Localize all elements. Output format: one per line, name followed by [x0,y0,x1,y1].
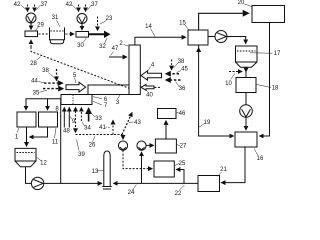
leader 21 [218,172,222,177]
drop wire to box 11 [47,99,49,110]
manifold up-arrow b line 9 [68,108,70,128]
dashed wire vessel31 to bed30 [66,33,75,35]
dashed wire bed29 to vessel31 [39,33,49,35]
manifold box 6/7 [61,95,92,105]
svg-text:37: 37 [91,2,98,8]
bottom wire 22 into column [114,182,199,184]
leader 30 [83,38,87,43]
svg-text:20: 20 [238,0,245,6]
dashed feed 10 [229,71,242,73]
tank 17 [236,46,258,67]
thick outlet arrow 32 [104,31,111,38]
dashed feed 35 [43,88,63,90]
svg-text:38: 38 [178,59,185,65]
svg-text:33: 33 [95,116,102,122]
leader 24 [133,185,137,191]
leader 11 [55,128,57,138]
long vertical wire from manifold [60,99,62,184]
svg-text:27: 27 [180,144,187,150]
wire 19 from box15 down to box16 [199,45,234,136]
leader 43 [129,121,134,123]
svg-text:2: 2 [119,41,123,47]
svg-text:23: 23 [106,16,113,22]
feed arrow 37 into mixer 29 [34,5,36,12]
pump circle B [137,141,146,150]
wire mixer to bed 29 [30,23,32,30]
vessel 31 [50,27,65,43]
tower box 2 [129,45,140,95]
wire mixer to bed 30 [81,24,83,31]
mixer circle 30 [77,14,87,24]
leader 3 [118,95,121,99]
arrow box27 to box46 [165,121,167,139]
dashed line 28 diagonal [31,47,129,88]
hopper outlet wire [26,167,32,184]
leader 34 [82,122,85,127]
svg-text:37: 37 [41,2,48,8]
leader 36 [176,82,180,87]
feed arrow 42 into mixer 30 [78,5,80,12]
pump P3 [31,177,43,189]
leader 7 [93,101,102,105]
wire box15 top to box 20 [199,13,249,30]
feed arrow 37 into mixer 30 [85,5,87,12]
leader 14 [151,29,156,37]
leader 31 [57,20,60,27]
leader 23 [100,21,107,25]
pump P1 [215,31,227,43]
svg-text:32: 32 [99,44,106,50]
dashed branch 41 [112,120,114,134]
svg-text:26: 26 [89,143,96,149]
svg-text:11: 11 [52,140,59,146]
svg-text:24: 24 [128,190,135,196]
column 13 [102,151,111,189]
overhead line 14 to box 15 [135,37,186,45]
svg-text:1: 1 [15,135,19,141]
dashed feed 36 [166,79,181,81]
duct box 3 [88,85,129,95]
svg-text:7: 7 [104,103,108,109]
svg-text:43: 43 [134,120,141,126]
box 25 [154,161,174,177]
leader 5 [75,78,77,84]
leader 29 [36,27,39,31]
dashed feed 44 [44,82,63,84]
mixer circle 29 [26,13,36,23]
svg-text:30: 30 [77,43,84,49]
feed arrow 42 into mixer 29 [27,5,29,12]
arrow 47 into tower 2 [109,56,127,58]
leader 26 [93,136,96,141]
leader 19 [199,124,204,128]
dashed feed 23 [97,17,99,31]
pump P2 [240,105,253,118]
leader 13 [98,170,104,172]
leader 18 [257,85,272,88]
leader 28 [37,57,41,60]
box 27 [155,139,176,153]
wire bed30 output [89,33,106,35]
riser into box 15 [198,48,200,52]
svg-text:14: 14 [145,24,152,30]
leader 41 [106,126,112,129]
leader 27 [177,145,180,147]
wire box18 to pump P2 [245,93,247,105]
leader 4 [148,67,151,71]
box 1 [17,112,36,127]
arrowhead up into manifold from 39 line [75,107,77,110]
svg-text:3: 3 [116,100,120,106]
leader 37b [87,5,91,10]
elbow up to box 25 [176,170,184,184]
svg-text:22: 22 [175,191,182,197]
svg-text:36: 36 [179,86,186,92]
svg-text:47: 47 [112,46,119,52]
bed box 29 [25,31,38,37]
wire box16 to box 21 [221,147,245,183]
svg-text:48: 48 [63,128,70,134]
leader 10 [231,74,236,80]
dashed manifold drain 39 [75,108,77,133]
svg-text:19: 19 [204,120,211,126]
dashed drop into pumpA [122,135,124,140]
svg-text:4: 4 [151,63,155,69]
svg-text:12: 12 [40,161,47,167]
hopper 12 [15,148,36,166]
dashed branch 43 [122,113,132,135]
wire pump P1 to tank 17 [227,37,246,44]
bottom transfer wire 24 [44,182,102,184]
leader 42b [72,5,77,10]
leader 32 [105,39,107,44]
leader 47 [111,52,114,56]
svg-text:16: 16 [257,156,264,162]
leader 20 [245,4,252,7]
box 18 [236,78,256,93]
box 16 [235,132,257,147]
svg-text:31: 31 [52,15,59,21]
manifold divider [72,95,74,105]
svg-text:45: 45 [181,67,188,73]
leader 44 [39,82,45,83]
bed box 30 [76,32,89,38]
svg-text:39: 39 [78,152,85,158]
leader 40 [146,89,148,91]
box 15 [188,30,208,45]
leader 17 [250,52,273,54]
svg-text:44: 44 [31,79,38,85]
wire box15 to pump P1 [208,36,215,38]
svg-text:42: 42 [14,2,21,8]
block arrow 40 into tower 2 [141,84,154,90]
leader 2 [124,45,129,47]
leader 33 [90,112,95,117]
svg-text:13: 13 [92,169,99,175]
svg-text:38: 38 [42,68,49,74]
svg-text:46: 46 [179,111,186,117]
wire box11 elbow [30,127,48,137]
svg-text:10: 10 [225,81,232,87]
svg-text:41: 41 [99,125,106,131]
manifold up-arrow a [63,108,65,128]
distribution wire to boxes 1 and 11 [26,99,61,110]
svg-text:28: 28 [30,61,37,67]
leader 38b [174,63,179,68]
leader 9 [70,117,72,120]
leader 39 [77,140,80,151]
leader 22 [180,185,185,190]
leader 12 [37,158,41,161]
dashed riser into bed 29 [30,40,32,47]
leader 35 [40,91,48,93]
svg-text:18: 18 [272,86,279,92]
block arrow 4 into tower 2 [141,71,162,80]
leader 1 [17,128,19,133]
wire pump P2 to box 16 [245,117,247,130]
leader 6 [93,97,102,99]
leader 37a [36,5,40,10]
box 11 [39,112,58,127]
box 20 [252,6,285,23]
dashed wire pumpA down to box25 [123,150,152,168]
leader 46 [176,112,178,115]
svg-text:42: 42 [66,2,73,8]
svg-text:5: 5 [73,73,77,79]
dashed feed 38a vertical [56,69,58,81]
svg-text:8: 8 [55,107,59,113]
svg-text:25: 25 [179,161,186,167]
svg-text:15: 15 [179,21,186,27]
pump circle A [118,141,127,150]
dashed feed 38b vertical [171,60,173,70]
svg-text:40: 40 [146,93,153,99]
leader 42a [21,5,26,10]
svg-text:29: 29 [37,23,44,29]
leader 16 [254,149,258,156]
riser into pumpB [141,152,143,183]
box 46 [158,109,177,119]
wire box1 to hopper 12 [26,127,28,146]
svg-text:21: 21 [220,167,227,173]
leader 45 [177,71,182,73]
manifold up-arrow d thick 33 [88,109,90,122]
dashed tail of arrow 40 [155,86,161,88]
dashed bus 26 [76,134,123,136]
wire pumpB to box27 [146,144,154,146]
manifold up-arrow c dashed 34 [80,108,82,122]
recycle loop 19 right side [260,23,270,137]
svg-text:35: 35 [33,91,40,97]
leader 15 [185,25,189,30]
dashed feed 45 [166,73,179,75]
leader 25 [175,164,179,166]
block arrow 5 [66,82,86,92]
tank 17 outlet [245,67,247,72]
leader 38a [49,73,56,79]
svg-text:17: 17 [274,51,281,57]
svg-text:34: 34 [84,126,91,132]
box 21 [198,176,220,192]
